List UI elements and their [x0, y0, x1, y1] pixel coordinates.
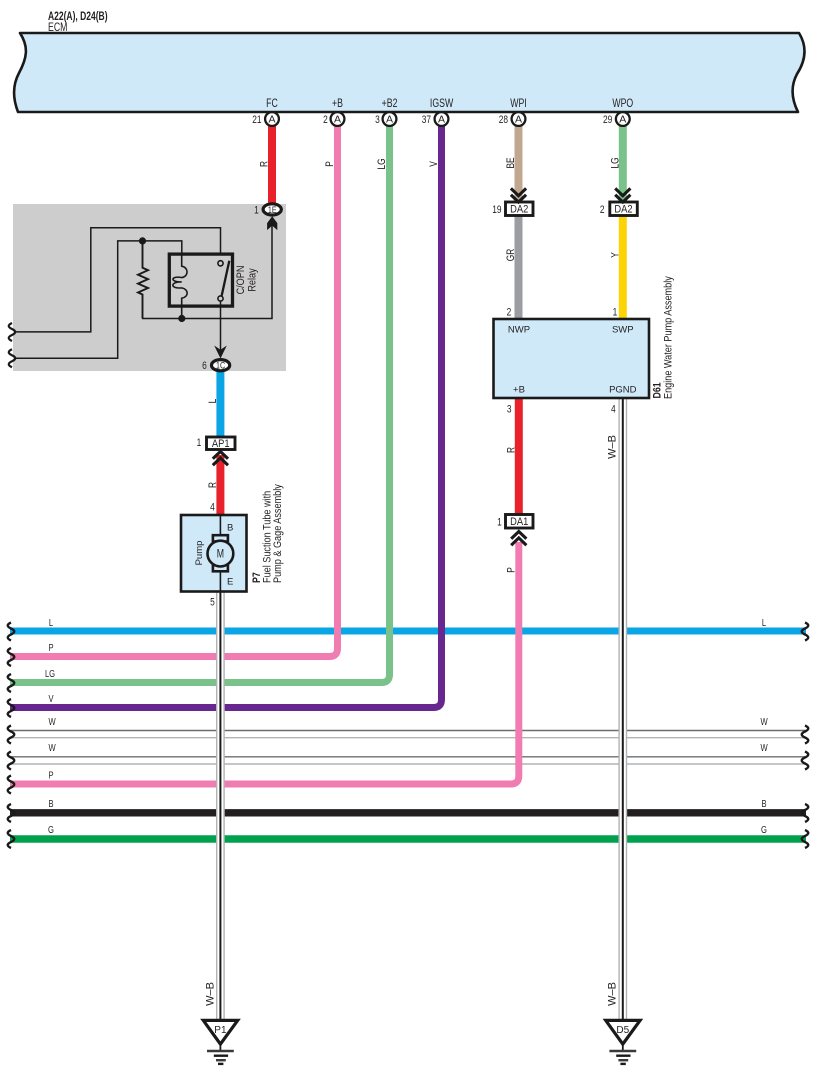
svg-text:A: A	[268, 114, 275, 126]
svg-text:NWP: NWP	[508, 325, 530, 336]
svg-text:2: 2	[507, 306, 512, 318]
arrow into connector 1C (pointing down)	[214, 346, 227, 359]
bus W lower (white wire, two thin lines)	[8, 742, 809, 770]
svg-text:SWP: SWP	[612, 325, 634, 336]
svg-text:3: 3	[507, 403, 512, 415]
svg-text:A: A	[334, 114, 341, 126]
svg-text:WPO: WPO	[612, 98, 633, 110]
svg-text:Pump: Pump	[194, 541, 205, 566]
torn edge left of bus L	[8, 623, 15, 641]
ECM module band	[14, 11, 804, 112]
pump internal lead B	[219, 515, 221, 536]
double chevron below AP1 (pointing up)	[213, 452, 228, 466]
connector DA2 box, pin 2	[610, 202, 638, 216]
svg-text:W–B: W–B	[607, 435, 619, 459]
torn edge on relay wire 2	[9, 349, 16, 367]
svg-text:3: 3	[375, 114, 380, 126]
ECM pin IGSW circle A, pin 37	[435, 112, 449, 126]
svg-text:DA2: DA2	[510, 204, 528, 216]
svg-text:5: 5	[210, 596, 215, 608]
svg-text:A: A	[619, 114, 626, 126]
svg-text:LG: LG	[376, 158, 388, 169]
svg-text:FC: FC	[266, 98, 278, 110]
ground D5	[606, 1020, 640, 1044]
svg-text:W: W	[48, 716, 56, 727]
svg-text:PGND: PGND	[609, 385, 637, 396]
torn edge left of bus V	[8, 699, 15, 717]
svg-text:Relay: Relay	[247, 267, 259, 291]
svg-text:L: L	[49, 617, 53, 628]
svg-text:P1: P1	[214, 1025, 227, 1036]
svg-text:1: 1	[254, 204, 259, 216]
svg-text:21: 21	[252, 114, 261, 126]
svg-text:28: 28	[499, 114, 508, 126]
svg-text:LG: LG	[609, 157, 621, 168]
svg-text:1: 1	[613, 306, 618, 318]
svg-text:C/OPN: C/OPN	[235, 266, 247, 295]
torn edge right of bus W1	[802, 726, 809, 744]
torn edge left of bus W1	[8, 726, 15, 744]
double chevron below DA1 (pointing up)	[511, 532, 526, 546]
svg-text:A: A	[438, 114, 445, 126]
svg-text:R: R	[207, 482, 219, 488]
resistor inside relay enclosure	[138, 241, 148, 319]
wire LG from ECM pin +B2 down to bus LG	[10, 126, 390, 683]
svg-text:P: P	[48, 642, 53, 653]
torn edge left of bus P lower	[8, 776, 15, 794]
torn edge left of bus P	[8, 648, 15, 666]
svg-text:W: W	[48, 742, 56, 753]
svg-text:1C: 1C	[216, 361, 225, 371]
torn edge left of bus G	[8, 830, 15, 848]
ECM pin +B2 circle A, pin 3	[383, 112, 397, 126]
P7 Fuel Suction Tube with Pump and Gage Assembly box	[181, 515, 247, 592]
svg-text:1: 1	[197, 437, 202, 449]
wire GR from DA2 pin 19 to D61 pin 2 NWP	[515, 215, 523, 319]
torn edge right of bus L	[802, 623, 809, 641]
svg-text:G: G	[761, 824, 767, 835]
svg-text:+B: +B	[332, 98, 343, 110]
torn edge right of bus G	[802, 830, 809, 848]
svg-text:1: 1	[497, 516, 502, 528]
junction dot at resistor top	[139, 237, 146, 244]
ECM pin WPI circle A, pin 28	[512, 112, 526, 126]
svg-text:B: B	[761, 798, 766, 809]
svg-text:M: M	[217, 548, 224, 560]
svg-text:2: 2	[600, 204, 605, 216]
arrow into connector 1E (pointing up)	[267, 216, 277, 230]
wire W-B from D61 pin 4 PGND to ground D5	[619, 398, 626, 1021]
wire W-B from pump P7 pin 5 to ground P1	[217, 592, 224, 1021]
ECM pin +B circle A, pin 2	[331, 112, 345, 126]
svg-text:37: 37	[422, 114, 431, 126]
svg-text:BE: BE	[505, 157, 517, 169]
svg-text:+B: +B	[513, 385, 525, 396]
svg-text:L: L	[207, 398, 219, 403]
wire V from ECM pin IGSW down to bus V	[10, 126, 442, 708]
svg-text:W–B: W–B	[205, 982, 217, 1006]
svg-text:W: W	[760, 742, 768, 753]
svg-text:2: 2	[323, 114, 328, 126]
junction dot at coil bottom	[178, 315, 185, 322]
svg-text:Pump & Gage Assembly: Pump & Gage Assembly	[272, 483, 284, 583]
svg-text:P: P	[505, 567, 517, 573]
svg-text:4: 4	[210, 501, 215, 513]
svg-text:R: R	[258, 161, 270, 167]
relay switch blade	[222, 261, 230, 296]
wire R from connector AP1 to pump P7 pin 4	[216, 455, 224, 516]
svg-text:W: W	[760, 716, 768, 727]
svg-text:G: G	[48, 824, 54, 835]
connector DA2 box, pin 19	[506, 202, 534, 216]
svg-text:B: B	[48, 798, 53, 809]
svg-text:WPI: WPI	[510, 98, 526, 110]
svg-text:IGSW: IGSW	[430, 98, 454, 110]
svg-text:V: V	[48, 693, 53, 704]
svg-text:D5: D5	[616, 1025, 629, 1036]
svg-text:B: B	[227, 523, 233, 534]
svg-text:DA1: DA1	[510, 516, 528, 528]
svg-text:V: V	[428, 161, 440, 167]
wire P from connector DA1 down to bus P lower	[10, 542, 519, 784]
torn edge right of bus B	[802, 804, 809, 822]
connector 1C oval, pin 6	[212, 360, 230, 371]
relay coil	[173, 254, 187, 319]
ECM pin WPO circle A, pin 29	[616, 112, 630, 126]
bus B (black) full width	[8, 798, 809, 822]
torn edge left of bus LG	[8, 674, 15, 692]
svg-text:P: P	[324, 161, 336, 167]
svg-text:DA2: DA2	[614, 204, 632, 216]
svg-text:E: E	[227, 577, 233, 588]
relay switch contacts	[218, 261, 223, 266]
svg-text:Y: Y	[609, 252, 621, 258]
torn edge right of bus W2	[802, 752, 809, 770]
svg-text:ECM: ECM	[48, 22, 67, 34]
pump motor M	[213, 535, 228, 541]
svg-text:AP1: AP1	[212, 438, 230, 450]
bus G (green) full width	[8, 824, 809, 848]
svg-text:6: 6	[202, 360, 207, 372]
connector DA1 box, pin 1	[506, 515, 534, 529]
double chevron above DA2-2 (pointing down)	[615, 188, 630, 202]
torn edge on relay wire 1	[9, 323, 16, 341]
svg-text:GR: GR	[505, 249, 517, 262]
svg-text:R: R	[505, 447, 517, 453]
svg-text:19: 19	[492, 204, 501, 216]
D61 Engine Water Pump Assembly box	[494, 319, 650, 398]
relay coil box	[169, 254, 232, 306]
wire L from connector 1C to connector AP1	[216, 372, 224, 438]
wire from switch top horizontal to left torn edge	[14, 228, 221, 332]
pump internal lead E	[219, 571, 221, 592]
svg-text:A: A	[386, 114, 393, 126]
svg-text:P: P	[48, 769, 53, 780]
svg-text:29: 29	[603, 114, 612, 126]
svg-text:LG: LG	[45, 668, 55, 679]
svg-text:W–B: W–B	[607, 982, 619, 1006]
torn edge left of bus B	[8, 804, 15, 822]
wire from coil top horizontal to left torn edge	[14, 241, 182, 358]
ECM pin FC circle A, pin 21	[265, 112, 279, 126]
wire R from ECM pin FC to connector 1E	[268, 126, 276, 204]
wire LG from ECM pin WPO to connector DA2 pin 2	[619, 126, 627, 202]
svg-text:Engine Water Pump Assembly: Engine Water Pump Assembly	[663, 275, 675, 399]
svg-text:+B2: +B2	[382, 98, 398, 110]
connector AP1 box, pin 1	[207, 437, 236, 450]
relay shaded enclosure	[13, 204, 286, 371]
svg-text:1E: 1E	[268, 205, 277, 215]
svg-text:4: 4	[611, 403, 616, 415]
ground P1	[203, 1020, 237, 1044]
svg-text:L: L	[762, 617, 766, 628]
bus W upper (white wire, two thin lines)	[8, 716, 809, 744]
wire P from ECM pin +B down to bus P	[10, 126, 338, 657]
wire from switch bottom to 1C arrow	[220, 301, 222, 350]
bus L (blue) full width	[8, 617, 809, 641]
wire BE from ECM pin WPI to connector DA2 pin 19	[515, 126, 523, 202]
wire from 1E arrow down and left to coil/resistor bottom node	[142, 222, 272, 319]
wire Y from DA2 pin 2 to D61 pin 1 SWP	[619, 215, 627, 319]
svg-text:A: A	[515, 114, 522, 126]
torn edge left of bus W2	[8, 752, 15, 770]
wire R from D61 pin 3 +B to connector DA1	[515, 398, 523, 514]
double chevron above DA2-19 (pointing down)	[511, 188, 526, 202]
connector 1E oval, pin 1	[263, 204, 281, 215]
